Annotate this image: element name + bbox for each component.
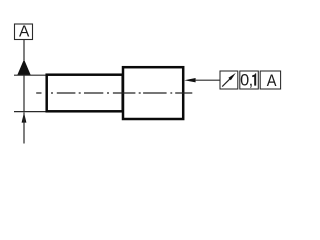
dimension arrow bottom bbox=[22, 112, 27, 143]
extension line top bbox=[14, 74, 46, 76]
datum triangle bbox=[17, 59, 31, 75]
svg-text:A: A bbox=[267, 72, 277, 90]
svg-text:0,: 0, bbox=[240, 72, 253, 90]
dimension line bbox=[23, 75, 25, 111]
leader arrow bbox=[184, 78, 195, 82]
shaft small cylinder bbox=[47, 75, 123, 112]
datum label box A bbox=[15, 23, 33, 40]
datum reference cell A bbox=[260, 71, 280, 90]
runout symbol (circular runout arrow) bbox=[222, 73, 236, 87]
datum leader line bbox=[23, 40, 25, 60]
extension line bottom bbox=[14, 111, 46, 113]
shaft large cylinder bbox=[123, 67, 183, 119]
tolerance cell 0,1 bbox=[240, 71, 258, 90]
feature control frame: runout symbol cell bbox=[220, 71, 238, 89]
svg-text:A: A bbox=[19, 23, 30, 40]
center line bbox=[36, 92, 192, 94]
leader line bbox=[195, 79, 220, 81]
